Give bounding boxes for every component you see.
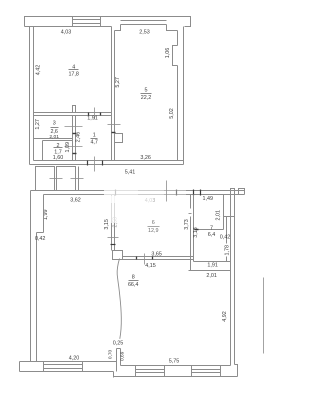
svg-text:0,42: 0,42 xyxy=(220,235,231,241)
svg-text:1,91: 1,91 xyxy=(87,116,98,122)
door jamb tick b2 xyxy=(102,161,104,166)
room 6 bottom wall upper line xyxy=(123,256,194,258)
svg-text:5,75: 5,75 xyxy=(169,359,180,365)
closet bottom wall xyxy=(194,229,224,231)
watermark fade 1 xyxy=(104,181,138,203)
svg-text:17,8: 17,8 xyxy=(68,71,79,77)
window W8a jamb left xyxy=(43,362,45,372)
svg-text:5,02: 5,02 xyxy=(169,108,175,119)
left exterior wall inner line xyxy=(33,27,35,161)
svg-text:1,09: 1,09 xyxy=(65,142,71,153)
svg-text:1: 1 xyxy=(93,132,96,138)
right exterior wall outer line xyxy=(234,191,236,365)
lower left wall step xyxy=(37,232,44,234)
lower block top wall upper line xyxy=(31,190,245,192)
window W8a glazing xyxy=(44,364,83,366)
svg-text:0,69: 0,69 xyxy=(120,351,126,361)
svg-text:2,01: 2,01 xyxy=(206,273,217,279)
room 7 right inner wall xyxy=(226,217,228,244)
bottom band step down xyxy=(113,372,115,378)
svg-text:22,2: 22,2 xyxy=(141,95,152,101)
room 6 bottom wall lower line xyxy=(123,259,194,261)
door center line b xyxy=(94,157,96,172)
door mark room6 left wall xyxy=(108,237,119,239)
opening tick t4 xyxy=(200,190,202,196)
svg-text:66,4: 66,4 xyxy=(128,282,139,288)
svg-text:2,01: 2,01 xyxy=(49,134,59,140)
closet right wall xyxy=(223,195,225,230)
bottom left band bottom line xyxy=(20,371,114,373)
watermark fade 6 xyxy=(143,216,163,233)
wall block joint line right of B xyxy=(78,167,80,191)
door jamb tick b1 xyxy=(87,161,89,166)
top wall right end cap xyxy=(239,189,245,195)
window W8c jambs xyxy=(191,366,193,377)
room 7 jog connector xyxy=(224,216,235,218)
closet box room 6 xyxy=(113,251,123,260)
svg-text:0,70: 0,70 xyxy=(107,350,113,360)
door mark room6-room7 xyxy=(189,213,192,215)
wall block A xyxy=(36,167,55,191)
lower left wall inner upper line xyxy=(43,195,45,233)
svg-text:3,73: 3,73 xyxy=(184,219,190,230)
door mark room1-room5 xyxy=(108,124,121,126)
svg-text:4,92: 4,92 xyxy=(222,311,228,322)
window W5 room 5 sill xyxy=(121,24,167,26)
joint mark B-C xyxy=(71,178,84,180)
joint mark A-B xyxy=(50,178,63,180)
svg-text:1,49: 1,49 xyxy=(203,196,214,202)
watermark fade 5 xyxy=(141,195,153,203)
room 5 right wall inner lower xyxy=(177,66,179,161)
door room4-room1 jamb 2 xyxy=(100,113,102,116)
window W8b glazing xyxy=(136,369,165,371)
right exterior wall outer line upper block xyxy=(183,27,185,165)
svg-text:2,46: 2,46 xyxy=(75,132,81,143)
window W5 glazing line xyxy=(121,20,167,22)
door jamb tick room6 left xyxy=(111,244,116,246)
svg-text:1,91: 1,91 xyxy=(207,263,218,269)
opening tick t2 xyxy=(176,190,178,196)
upper block bottom wall inner line xyxy=(34,160,184,162)
bottom left band left cap xyxy=(19,362,21,372)
bottom right band top line xyxy=(121,365,231,367)
top wall inner edge mid segment xyxy=(101,26,112,28)
vent shaft wall extension xyxy=(73,106,76,113)
watermark fade 4 xyxy=(108,196,122,223)
svg-text:5,41: 5,41 xyxy=(125,170,136,176)
balcony edge line xyxy=(263,278,265,354)
door room6 bottom center line xyxy=(144,254,146,265)
svg-text:0,42: 0,42 xyxy=(35,236,46,242)
pillar top cap xyxy=(117,348,121,350)
room 2 top wall line xyxy=(43,140,73,142)
svg-text:5: 5 xyxy=(145,88,148,94)
svg-text:4,20: 4,20 xyxy=(69,355,80,361)
window W8c glazing xyxy=(192,369,221,371)
door swing curve room 8 xyxy=(117,259,121,339)
door room4-room1 jamb 1 xyxy=(88,113,90,116)
duct box right of room 1 xyxy=(115,134,123,143)
room 3 right wall outer line xyxy=(72,116,74,161)
wall rooms4+1 / room5 left line xyxy=(111,27,113,161)
wall block B xyxy=(57,167,76,191)
svg-text:3,26: 3,26 xyxy=(140,155,151,161)
room 3 bottom wall line xyxy=(34,138,73,140)
opening tick t3 xyxy=(193,190,195,196)
left exterior wall outer line xyxy=(29,27,31,165)
room 7 bottom wall upper line xyxy=(194,261,231,263)
wall room4 bottom upper line xyxy=(34,112,112,114)
room 6 left wall outer line xyxy=(111,195,113,251)
svg-text:1,27: 1,27 xyxy=(35,119,41,129)
niche bump room 5 xyxy=(173,46,178,66)
svg-text:1,78: 1,78 xyxy=(224,245,230,256)
svg-text:3,65: 3,65 xyxy=(151,252,162,258)
svg-text:2: 2 xyxy=(57,143,60,149)
svg-text:3: 3 xyxy=(53,121,56,127)
watermark fade 3 xyxy=(164,181,186,203)
svg-text:4,7: 4,7 xyxy=(90,140,98,146)
door room6 bottom jamb 1 xyxy=(136,257,138,260)
room 6 left wall inner line xyxy=(114,195,116,251)
door room6 bottom jamb 2 xyxy=(152,257,154,260)
svg-text:4,42: 4,42 xyxy=(36,65,42,76)
bottom left band top line xyxy=(20,361,117,363)
door mark room3-room1 xyxy=(65,126,83,128)
bottom right corner step xyxy=(235,365,238,377)
door mark room2-room1 xyxy=(65,146,83,148)
window W4 room 4 xyxy=(73,17,101,27)
room 2 left wall line xyxy=(42,141,44,161)
top wall soffit right of window W5 xyxy=(167,25,178,31)
svg-text:1,06: 1,06 xyxy=(165,48,171,59)
top wall soffit left of window W5 xyxy=(115,25,121,31)
svg-text:8: 8 xyxy=(132,274,135,280)
room 3 right wall inner line xyxy=(75,116,77,161)
exterior wall top outline xyxy=(25,17,191,27)
svg-text:0,25: 0,25 xyxy=(113,341,124,347)
opening tick t1 xyxy=(115,190,117,196)
pillar left line xyxy=(116,349,118,372)
lower left wall inner lower line xyxy=(36,233,38,362)
room 6 right wall outer line xyxy=(190,195,192,209)
svg-text:4,15: 4,15 xyxy=(145,263,156,269)
pillar right line xyxy=(120,349,122,366)
window W8b jambs xyxy=(135,366,137,377)
lower block top wall lower line xyxy=(44,194,245,196)
svg-text:7: 7 xyxy=(210,225,213,231)
svg-text:4,03: 4,03 xyxy=(61,29,72,35)
room 5 right wall inner upper xyxy=(177,31,179,46)
svg-text:2,01: 2,01 xyxy=(216,210,222,221)
room 6 right wall inner line xyxy=(193,195,195,262)
svg-text:5,27: 5,27 xyxy=(115,77,121,88)
top wall inner edge left segment xyxy=(25,26,73,28)
watermark fade 2 xyxy=(138,181,164,203)
window W8a jamb right xyxy=(82,362,84,372)
wall room4 bottom lower line xyxy=(34,115,112,117)
door mark room4-room1 center line xyxy=(94,108,96,120)
wall rooms4+1 / room5 right line xyxy=(114,31,116,161)
upper block bottom wall outer line xyxy=(30,164,184,166)
top wall notch at right wall xyxy=(231,189,235,191)
svg-text:6,4: 6,4 xyxy=(208,232,216,238)
opening center line t xyxy=(166,181,168,202)
svg-text:3,62: 3,62 xyxy=(70,197,81,203)
room 7 bottom wall lower line xyxy=(189,270,231,272)
bottom right band bottom line xyxy=(114,376,238,378)
svg-text:2,53: 2,53 xyxy=(139,29,150,35)
lower left wall outer line xyxy=(30,191,32,362)
right exterior wall inner line xyxy=(230,191,232,366)
